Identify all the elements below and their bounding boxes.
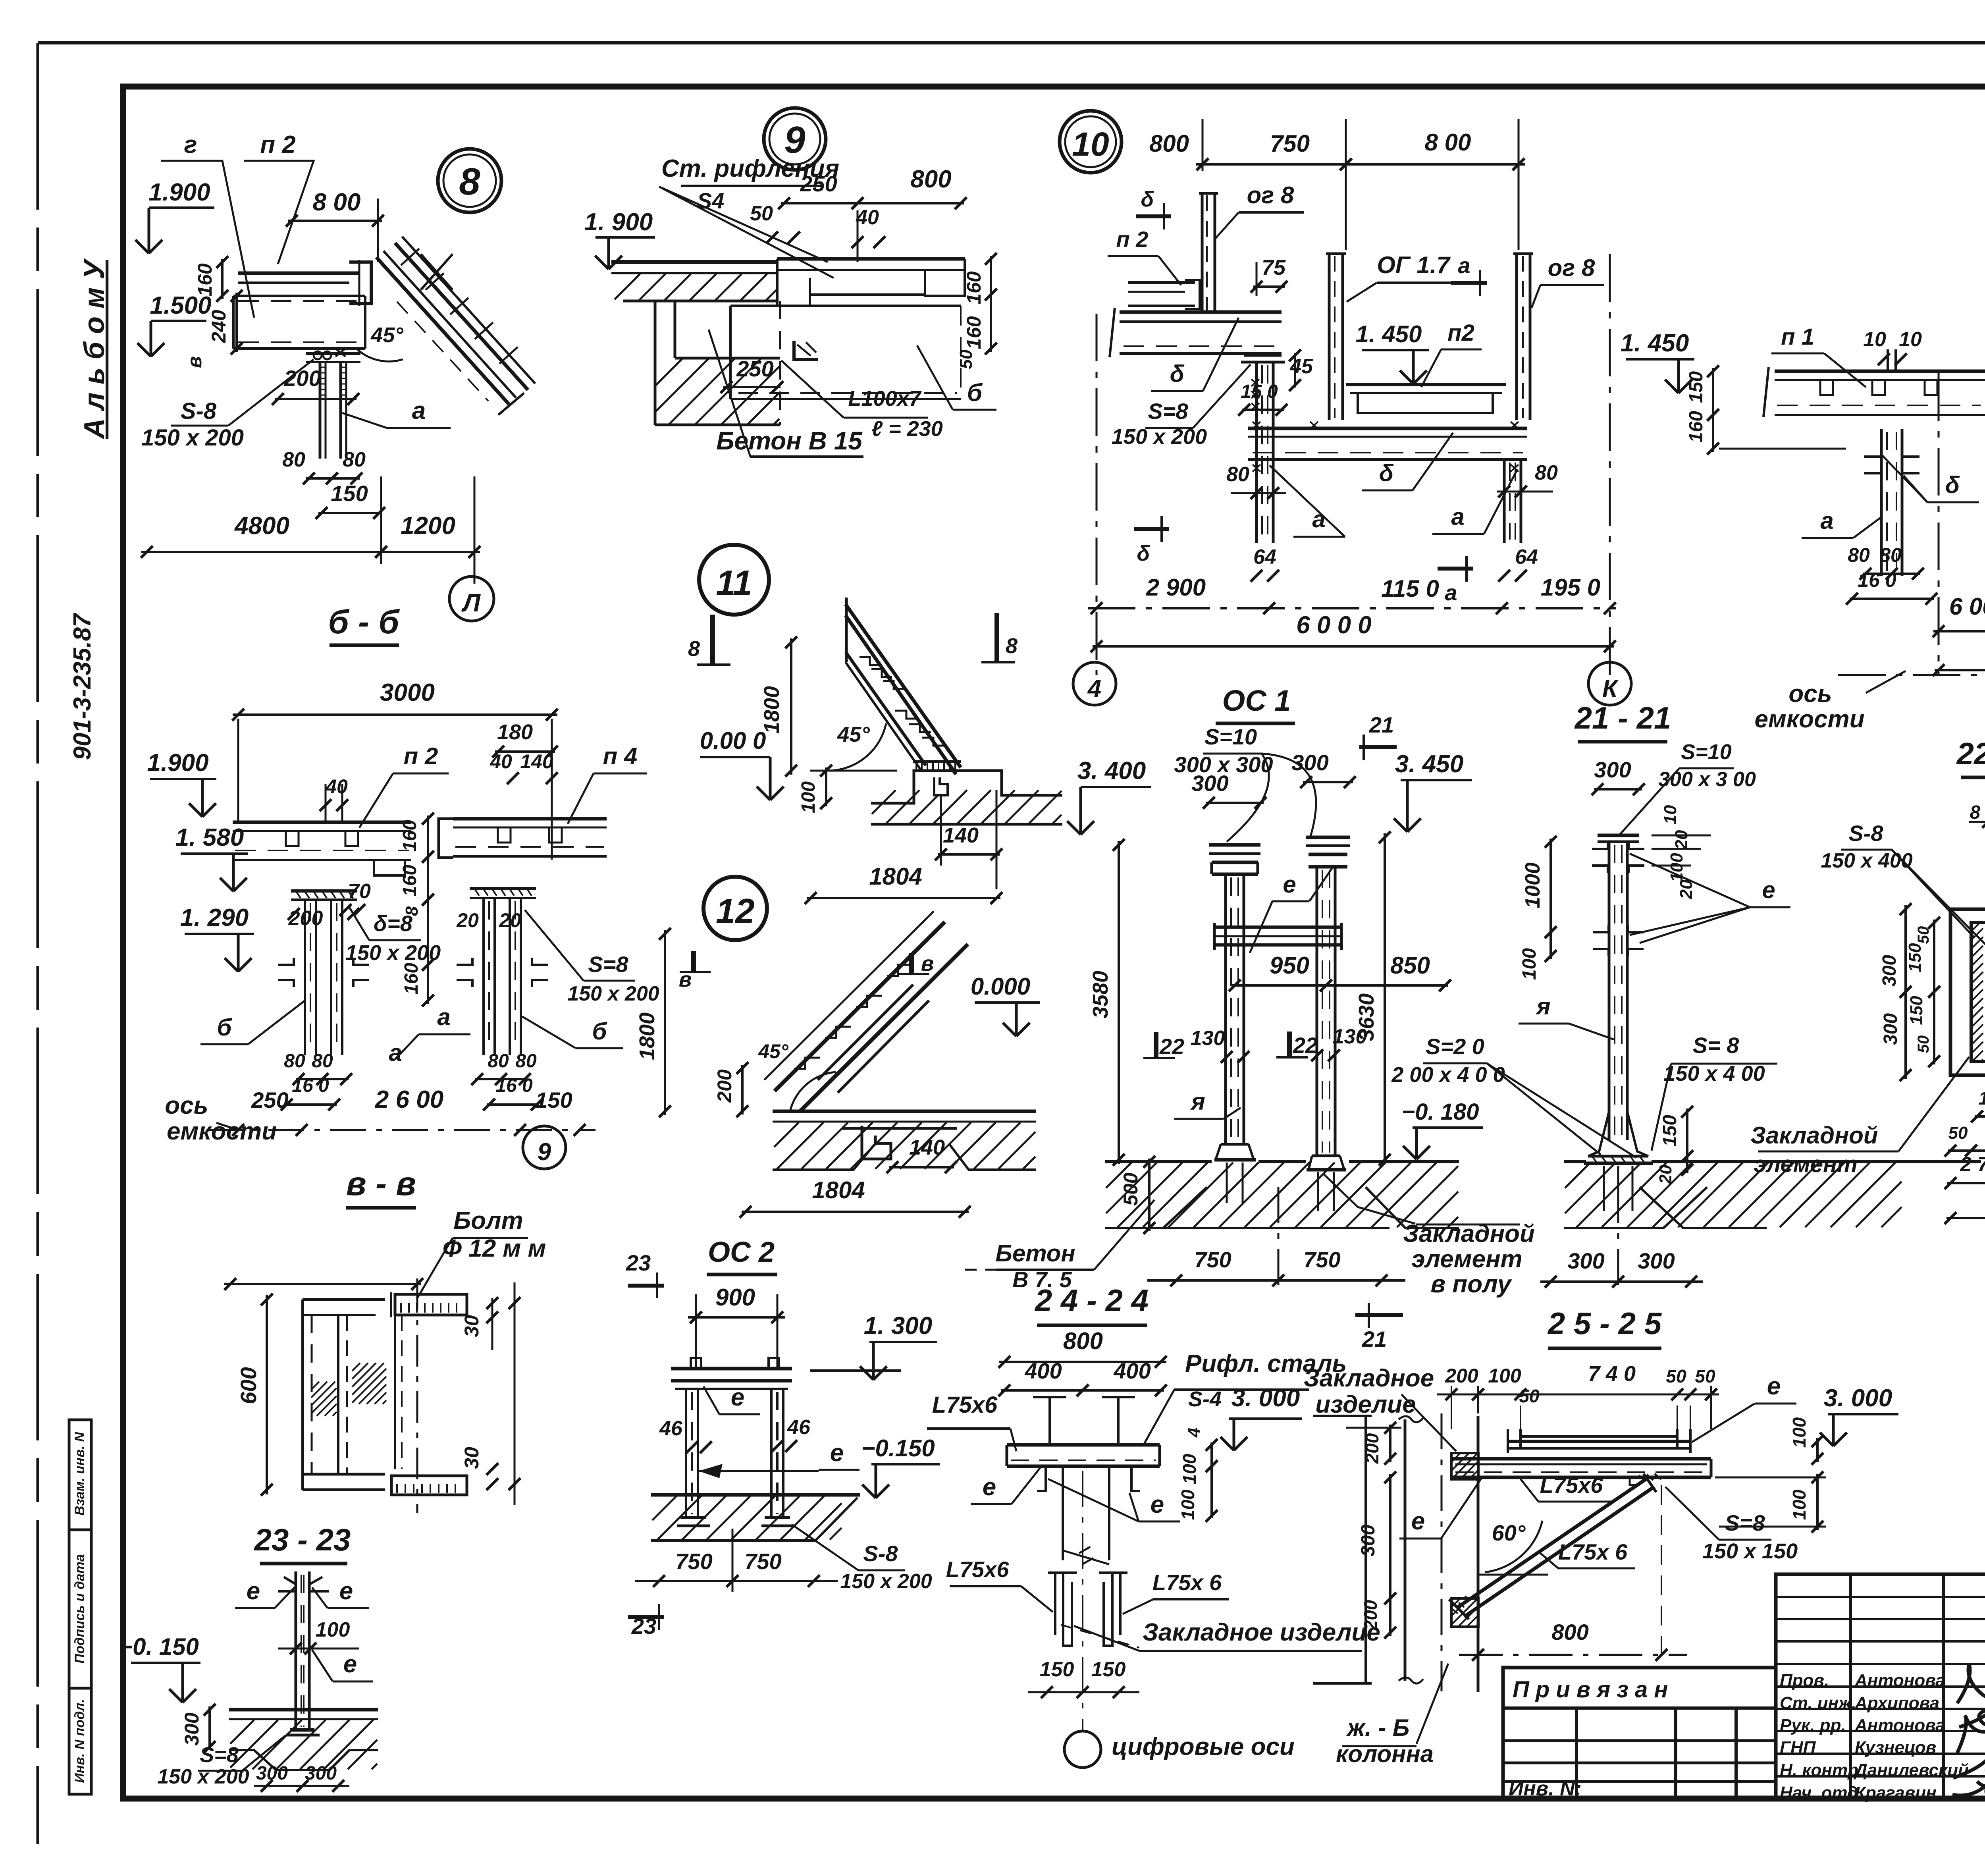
detail 11 section mark 8 left: [710, 615, 715, 665]
svg-text:в: в: [183, 356, 206, 368]
svg-text:колонна: колонна: [1336, 1741, 1434, 1767]
svg-text:ось: ось: [1788, 680, 1832, 708]
svg-text:4: 4: [1184, 1428, 1204, 1438]
svg-text:а: а: [1445, 580, 1457, 605]
svg-text:180: 180: [497, 720, 533, 744]
svg-text:750: 750: [1303, 1247, 1340, 1272]
detail 10 column left: [1255, 362, 1258, 543]
svg-text:ℓ = 230: ℓ = 230: [871, 417, 943, 441]
svg-text:160: 160: [399, 820, 420, 852]
section a-a left slab p1: [1775, 370, 1983, 373]
detail 10 section mark b top: [1136, 214, 1171, 218]
svg-text:30: 30: [461, 1315, 483, 1337]
svg-text:300 х 3 00: 300 х 3 00: [1658, 768, 1756, 791]
svg-text:750: 750: [675, 1549, 712, 1574]
svg-text:L75х6: L75х6: [1540, 1473, 1603, 1498]
detail 25 wall column: [1404, 1419, 1407, 1681]
svg-text:S=8: S=8: [1148, 399, 1188, 424]
svg-text:7 4 0: 7 4 0: [1588, 1362, 1636, 1386]
svg-text:80: 80: [515, 1051, 537, 1072]
OC1 right post cap: [1306, 836, 1350, 839]
svg-text:1. 900: 1. 900: [584, 208, 653, 236]
svg-text:750: 750: [744, 1549, 781, 1574]
svg-text:150: 150: [1659, 1115, 1681, 1147]
svg-text:e: e: [1411, 1508, 1425, 1535]
svg-text:160: 160: [963, 271, 985, 305]
svg-text:L75х6: L75х6: [946, 1557, 1010, 1582]
svg-text:S=8: S=8: [588, 952, 628, 977]
svg-text:1. 450: 1. 450: [1621, 330, 1689, 357]
page frame outer scan edge left: [37, 43, 39, 1844]
detail 10 platform between posts: [1346, 383, 1506, 386]
plan v-v inner verticals: [337, 1315, 339, 1474]
svg-text:Пров.: Пров.: [1780, 1671, 1829, 1690]
svg-text:250: 250: [800, 171, 837, 196]
svg-text:п 2: п 2: [404, 743, 438, 769]
svg-text:0.00 0: 0.00 0: [700, 727, 766, 754]
svg-text:300: 300: [305, 1763, 337, 1784]
detail 9 lower ledge hatched: [675, 357, 780, 360]
detail 8 ladder bottom break: [498, 393, 524, 415]
title block signatures table: [1776, 1574, 1985, 1799]
svg-text:600: 600: [236, 1367, 261, 1404]
svg-text:100: 100: [1979, 1088, 1985, 1109]
svg-text:2 00 х 4 0 0: 2 00 х 4 0 0: [1391, 1063, 1505, 1087]
svg-text:30: 30: [461, 1447, 483, 1469]
detail 9 angle L100x7: [794, 341, 818, 359]
svg-text:130: 130: [1333, 1025, 1367, 1048]
section b-b right column shaft: [482, 898, 485, 1055]
svg-text:S=10: S=10: [1681, 740, 1732, 764]
svg-text:60°: 60°: [1492, 1520, 1526, 1545]
svg-text:4: 4: [1087, 675, 1101, 702]
svg-text:80: 80: [1535, 461, 1558, 484]
svg-text:емкости: емкости: [1754, 706, 1864, 733]
svg-text:3. 450: 3. 450: [1395, 750, 1463, 778]
node circle 11: [699, 545, 769, 615]
detail 23 base plate: [290, 1728, 314, 1732]
detail 10 section mark a top: [1451, 281, 1487, 285]
plan v-v bottom flange: [303, 1473, 385, 1476]
detail 25 diagonal strut: [1458, 1479, 1647, 1607]
svg-text:ГНП: ГНП: [1780, 1738, 1816, 1757]
detail 11 stair top cut: [845, 598, 848, 662]
title block small table privyazan: [1503, 1668, 1776, 1799]
svg-text:2 6 00: 2 6 00: [375, 1086, 443, 1113]
detail 8 column weld dots: [314, 351, 331, 359]
detail 10 tall posts: [1328, 254, 1331, 420]
svg-text:800: 800: [1551, 1620, 1588, 1645]
svg-text:а: а: [1451, 503, 1464, 530]
svg-text:160: 160: [1686, 411, 1707, 443]
svg-text:22: 22: [1293, 1033, 1318, 1058]
svg-text:140: 140: [520, 750, 553, 773]
detail 8 column base plate: [306, 352, 360, 355]
22-22 inner plate crosshatched border: [1971, 923, 1985, 1061]
OC1 ground: [1105, 1160, 1212, 1163]
detail 9 checker plate: [777, 257, 965, 261]
detail 25 platform slab: [1451, 1457, 1711, 1461]
svg-text:500: 500: [1120, 1172, 1142, 1206]
svg-text:150: 150: [535, 1087, 572, 1112]
svg-text:20: 20: [456, 909, 479, 931]
plan v-v outline: [303, 1298, 385, 1301]
svg-text:Болт: Болт: [453, 1207, 523, 1234]
svg-text:S-8: S-8: [181, 398, 217, 424]
detail 23 post top lugs: [284, 1577, 296, 1584]
svg-text:ОС 2: ОС 2: [708, 1236, 775, 1268]
svg-text:46: 46: [787, 1416, 811, 1439]
section b-b left slab: [233, 821, 411, 824]
detail 9 floor slab hatched: [611, 260, 777, 264]
svg-text:16 0: 16 0: [495, 1075, 533, 1096]
svg-text:S= 8: S= 8: [1693, 1033, 1740, 1058]
svg-text:Кузнецов: Кузнецов: [1855, 1738, 1936, 1757]
svg-text:емкости: емкости: [167, 1118, 277, 1145]
svg-text:2 4 - 2 4: 2 4 - 2 4: [1034, 1283, 1149, 1318]
axis circle 4: [1073, 662, 1116, 705]
svg-text:а: а: [412, 397, 426, 424]
svg-text:150: 150: [1091, 1658, 1126, 1681]
21-21 base gusset: [1588, 1112, 1609, 1156]
svg-text:950: 950: [1270, 952, 1309, 979]
OC1 right post shaft: [1316, 867, 1318, 1156]
svg-text:22 - 22: 22 - 22: [1956, 736, 1985, 771]
detail 24 plate: [1007, 1443, 1160, 1447]
svg-text:100: 100: [1178, 1489, 1198, 1520]
svg-text:400: 400: [1113, 1358, 1151, 1383]
OG2 posts: [685, 1389, 687, 1517]
section b-b right column cap: [470, 887, 536, 890]
svg-text:100: 100: [1488, 1365, 1521, 1387]
svg-text:ось: ось: [165, 1092, 208, 1119]
svg-text:80: 80: [284, 1051, 305, 1072]
svg-text:250: 250: [736, 356, 773, 381]
node circle 12: [703, 877, 767, 940]
svg-text:10: 10: [1863, 328, 1886, 351]
detail 23 post: [295, 1571, 297, 1730]
node circle 10: [1060, 111, 1122, 173]
svg-text:я: я: [1535, 993, 1550, 1020]
svg-text:δ: δ: [1379, 460, 1394, 486]
svg-text:S=2 0: S=2 0: [1426, 1034, 1484, 1059]
svg-text:750: 750: [1270, 130, 1310, 157]
svg-text:3. 000: 3. 000: [1824, 1384, 1892, 1412]
svg-text:L100х7: L100х7: [848, 387, 922, 411]
svg-text:300: 300: [1567, 1248, 1604, 1273]
svg-text:п 4: п 4: [603, 743, 638, 769]
svg-text:3. 400: 3. 400: [1077, 757, 1146, 785]
detail 10 slab left break: [1110, 308, 1115, 357]
detail 10 long beam: [1248, 427, 1527, 430]
svg-text:50: 50: [956, 349, 976, 369]
detail 11 stair stringers: [846, 604, 961, 767]
svg-text:100: 100: [1519, 948, 1540, 980]
svg-text:ОГ 1.7: ОГ 1.7: [1377, 252, 1451, 278]
OC1 left post base: [1221, 1143, 1249, 1146]
svg-text:9: 9: [538, 1138, 551, 1166]
OC1 section marks 22: [1154, 1032, 1158, 1058]
svg-text:6 0 0 0: 6 0 0 0: [1296, 611, 1372, 639]
svg-text:в: в: [921, 952, 934, 976]
svg-text:40: 40: [856, 206, 879, 229]
svg-text:2 75: 2 75: [1960, 1153, 1985, 1176]
svg-text:1804: 1804: [812, 1177, 865, 1203]
svg-text:п 1: п 1: [1781, 324, 1814, 350]
svg-text:8: 8: [459, 160, 480, 203]
svg-text:8: 8: [688, 637, 700, 661]
detail 12 section mark v right: [909, 953, 914, 974]
svg-text:50: 50: [1666, 1366, 1686, 1386]
svg-text:1. 300: 1. 300: [864, 1312, 932, 1340]
svg-text:ог 8: ог 8: [1247, 182, 1294, 208]
svg-text:10: 10: [1899, 328, 1922, 351]
22-22 outer square: [1950, 909, 1985, 1075]
svg-text:800: 800: [910, 166, 951, 193]
svg-text:150 х 200: 150 х 200: [345, 941, 441, 965]
svg-text:Бетон: Бетон: [995, 1240, 1075, 1267]
21-21 cap plate: [1598, 834, 1639, 837]
svg-text:1800: 1800: [635, 1012, 659, 1060]
detail 10 right column: [1503, 459, 1506, 543]
detail 12 base plate in ground: [842, 1127, 957, 1130]
svg-text:п 2: п 2: [260, 131, 296, 158]
svg-text:б - б: б - б: [328, 603, 400, 640]
svg-text:20: 20: [499, 909, 521, 931]
svg-text:П р и в я з а н: П р и в я з а н: [1513, 1677, 1668, 1702]
svg-text:Бетон В 15: Бетон В 15: [716, 426, 863, 455]
section a-a center slab p2: [1983, 370, 1985, 373]
svg-text:250: 250: [251, 1087, 288, 1112]
OG2 base plates: [680, 1516, 706, 1519]
svg-text:130: 130: [1191, 1027, 1225, 1050]
svg-text:80: 80: [488, 1051, 509, 1072]
detail 25 strut foot: [1449, 1599, 1469, 1619]
svg-text:80: 80: [1879, 544, 1902, 566]
detail 12 stair stringers: [775, 922, 945, 1091]
svg-text:Данилевский: Данилевский: [1853, 1760, 1969, 1780]
svg-text:21: 21: [1369, 712, 1394, 737]
detail 24 hangers below plate: [1037, 1466, 1046, 1491]
svg-text:S-4: S-4: [1188, 1387, 1222, 1411]
svg-text:80: 80: [343, 448, 366, 471]
svg-text:а: а: [1458, 253, 1470, 278]
svg-text:10: 10: [1661, 805, 1680, 824]
plan v-v bolt centerline: [416, 1278, 418, 1513]
svg-text:2 5 - 2 5: 2 5 - 2 5: [1547, 1306, 1662, 1341]
detail 11 bolt pocket: [934, 777, 948, 795]
svg-text:900: 900: [715, 1284, 755, 1311]
svg-text:а: а: [1312, 506, 1325, 532]
section a-a mid column: [1880, 429, 1883, 576]
svg-text:100: 100: [798, 781, 819, 813]
detail 8 label g leader: [161, 161, 254, 318]
detail 11 section mark 8 right: [994, 613, 999, 662]
svg-text:140: 140: [909, 1136, 945, 1159]
section a-a slab left break: [1763, 367, 1769, 417]
svg-text:0.000: 0.000: [971, 973, 1030, 1000]
axis circle K: [1588, 662, 1631, 705]
svg-text:150: 150: [1040, 1658, 1074, 1681]
svg-text:Антонова: Антонова: [1854, 1716, 1945, 1735]
svg-text:S-8: S-8: [1848, 821, 1883, 846]
svg-text:г: г: [184, 131, 197, 158]
detail 10 left big slab: [1120, 310, 1282, 314]
svg-text:б: б: [217, 1014, 232, 1041]
OC1 left post shaft: [1224, 874, 1227, 1144]
detail 25 strut top weld: [1639, 1474, 1661, 1481]
stamp strip divider 1: [69, 1529, 91, 1531]
svg-text:ж. - Б: ж. - Б: [1346, 1714, 1410, 1741]
detail 24 break marks: [1063, 1550, 1109, 1564]
section b-b right slab: [453, 817, 607, 821]
svg-text:80: 80: [1226, 463, 1249, 486]
svg-text:А л ь б о м У: А л ь б о м У: [79, 258, 110, 440]
detail 10 weld x marks left: [1251, 379, 1259, 386]
svg-text:150 х 4 00: 150 х 4 00: [1663, 1062, 1765, 1085]
axis circle L: [449, 576, 494, 621]
svg-text:150: 150: [1907, 996, 1926, 1025]
OG2 top beam: [671, 1367, 792, 1371]
detail 25 left outer verticals: [1364, 1416, 1367, 1683]
svg-text:300: 300: [1358, 1525, 1379, 1556]
detail 12 inner stringer: [818, 985, 913, 1080]
svg-text:115 0: 115 0: [1381, 575, 1439, 602]
svg-text:200: 200: [1360, 1600, 1381, 1631]
svg-text:100: 100: [1789, 1489, 1810, 1520]
svg-text:45°: 45°: [758, 1040, 789, 1062]
svg-text:а: а: [1820, 507, 1833, 534]
svg-text:S=8: S=8: [200, 1743, 239, 1767]
plan v-v bottom serrated plate: [391, 1476, 467, 1495]
svg-text:ог 8: ог 8: [1548, 255, 1595, 281]
svg-text:L75х6: L75х6: [932, 1392, 998, 1418]
svg-text:80: 80: [282, 448, 305, 471]
detail 24 stubs above plate: [1048, 1397, 1051, 1445]
svg-text:e: e: [1151, 1491, 1164, 1518]
OG2 floor slab: [651, 1493, 860, 1497]
svg-text:я: я: [1190, 1088, 1205, 1115]
svg-text:10: 10: [1072, 125, 1109, 163]
svg-text:150 х 200: 150 х 200: [840, 1570, 932, 1593]
svg-text:L75х 6: L75х 6: [1152, 1570, 1222, 1595]
detail 8 platform right channel: [349, 262, 371, 304]
svg-text:50: 50: [1695, 1366, 1715, 1386]
svg-text:300: 300: [1879, 955, 1900, 987]
svg-text:а: а: [437, 1004, 450, 1030]
svg-text:Антонова: Антонова: [1854, 1671, 1945, 1690]
svg-text:e: e: [247, 1577, 260, 1605]
svg-text:400: 400: [1024, 1358, 1062, 1383]
svg-text:Инв. N:: Инв. N:: [1509, 1777, 1582, 1800]
svg-text:2 900: 2 900: [1146, 574, 1206, 601]
svg-text:e: e: [1762, 877, 1775, 903]
svg-text:23: 23: [626, 1250, 651, 1275]
svg-text:e: e: [983, 1473, 996, 1501]
plan v-v top right serrated plate: [395, 1294, 467, 1315]
svg-text:21: 21: [1362, 1327, 1387, 1352]
detail 10 baseplate under slab: [1244, 354, 1282, 357]
stamp strip divider 2: [69, 1687, 91, 1690]
svg-text:3000: 3000: [380, 679, 435, 706]
svg-text:цифровые оси: цифровые оси: [1112, 1733, 1295, 1760]
21-21 upper lugs: [1592, 842, 1608, 849]
OC1 right post base: [1312, 1155, 1340, 1157]
svg-text:150: 150: [1905, 943, 1925, 972]
detail 11 foot plate serrated: [913, 760, 961, 763]
svg-text:Л: Л: [461, 588, 481, 617]
svg-text:1.900: 1.900: [147, 749, 208, 777]
svg-text:64: 64: [1515, 546, 1538, 569]
detail 8 label p2 leader: [244, 161, 314, 264]
svg-text:850: 850: [1390, 952, 1430, 979]
svg-text:45°: 45°: [370, 323, 403, 347]
detail 24 lower angles: [1054, 1573, 1056, 1635]
OG2 bolts on beam: [691, 1358, 701, 1369]
svg-text:Архипова: Архипова: [1854, 1693, 1939, 1713]
svg-text:б: б: [967, 379, 983, 407]
svg-text:40: 40: [325, 775, 348, 798]
detail 25 embedded pad bottom: [1451, 1598, 1460, 1607]
detail 10 section mark b bottom: [1134, 527, 1169, 531]
svg-text:Подпись и дата: Подпись и дата: [72, 1554, 87, 1664]
svg-text:11: 11: [716, 563, 752, 602]
svg-text:S=8: S=8: [1725, 1510, 1765, 1535]
svg-text:150 х 200: 150 х 200: [567, 982, 659, 1005]
svg-text:δ: δ: [1945, 472, 1960, 498]
svg-text:50: 50: [750, 202, 773, 225]
svg-text:8 00: 8 00: [313, 189, 361, 216]
svg-text:300: 300: [1191, 771, 1228, 796]
detail 12 embedded channel: [862, 1126, 891, 1159]
svg-text:e: e: [830, 1439, 844, 1467]
svg-text:L75х 6: L75х 6: [1558, 1539, 1628, 1564]
svg-text:50: 50: [1915, 1035, 1932, 1053]
svg-text:16 0: 16 0: [292, 1075, 329, 1096]
svg-text:−0. 180: −0. 180: [1401, 1099, 1479, 1125]
detail 8 platform slab: [238, 272, 359, 275]
svg-text:Н. контр: Н. контр: [1780, 1760, 1858, 1780]
svg-text:1000: 1000: [1521, 862, 1544, 908]
detail 10 section mark a bottom: [1438, 567, 1473, 571]
svg-text:50: 50: [1519, 1386, 1540, 1406]
svg-text:750: 750: [1194, 1247, 1231, 1272]
svg-text:δ: δ: [1141, 187, 1154, 211]
svg-text:Взам. инв. N: Взам. инв. N: [72, 1431, 87, 1515]
svg-text:6 000: 6 000: [1949, 593, 1985, 620]
svg-text:46: 46: [659, 1417, 683, 1440]
detail 12 ground slab: [773, 1110, 1036, 1113]
svg-text:200: 200: [288, 907, 323, 930]
detail 11 pedestal: [871, 771, 1062, 803]
svg-text:в - в: в - в: [346, 1165, 416, 1202]
detail 8 ladder Lm1: [376, 257, 509, 404]
detail 9 leader fan: [659, 187, 828, 262]
svg-text:Ф 12 м м: Ф 12 м м: [443, 1235, 546, 1262]
detail 9 wall below: [654, 301, 657, 425]
21-21 column shaft: [1608, 842, 1611, 1140]
svg-text:150 х 400: 150 х 400: [1821, 849, 1912, 872]
detail 24 axis circle: [1064, 1731, 1101, 1768]
svg-text:150: 150: [331, 481, 368, 506]
21-21 anchor pins: [1603, 1166, 1605, 1211]
svg-text:1. 450: 1. 450: [1356, 321, 1422, 347]
svg-text:3. 000: 3. 000: [1231, 1384, 1300, 1412]
svg-text:100: 100: [1179, 1454, 1200, 1484]
svg-text:200: 200: [1445, 1365, 1478, 1387]
node circle 9: [764, 108, 826, 170]
svg-text:S=10: S=10: [1204, 724, 1257, 749]
